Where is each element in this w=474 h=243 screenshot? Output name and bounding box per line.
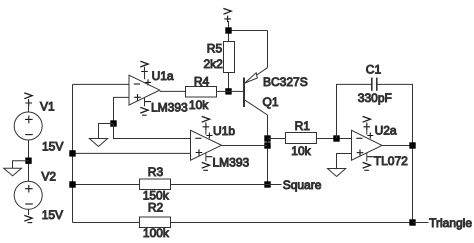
wire Triangle stub bbox=[413, 222, 429, 224]
transistor Q1 BC327S bbox=[244, 68, 308, 115]
wire R3 row right to Square node bbox=[171, 184, 268, 186]
node collector/R1 junction bbox=[264, 135, 270, 141]
wire node to ground bbox=[99, 124, 114, 139]
ground U1a node bbox=[89, 139, 107, 147]
svg-text:U1a: U1a bbox=[152, 69, 174, 83]
svg-text:15V: 15V bbox=[42, 139, 63, 153]
node U2a output/right rail junction bbox=[409, 142, 415, 148]
ground V supply bbox=[4, 168, 22, 176]
resistor R5 bbox=[204, 41, 235, 72]
wire R3 row left bbox=[73, 184, 140, 186]
svg-text:Square: Square bbox=[283, 178, 322, 192]
resistor R1 bbox=[286, 119, 317, 158]
node rail/U1b+ junction bbox=[69, 150, 75, 156]
node collector/U1b output junction bbox=[264, 142, 270, 148]
voltage source V1 bbox=[14, 93, 63, 153]
wire R2 row right to Triangle rail bbox=[171, 222, 413, 224]
op-amp U1b bbox=[191, 116, 250, 170]
wire node down to U1b inverting input bbox=[114, 124, 191, 139]
capacitor C1 bbox=[358, 63, 392, 106]
node rail/R3 junction bbox=[69, 181, 75, 187]
wire R5 bottom to base node bbox=[228, 73, 230, 92]
node R1/C1/U2a- junction bbox=[333, 135, 339, 141]
wire U2a non-inverting input to ground bbox=[337, 154, 352, 169]
svg-text:BC327S: BC327S bbox=[263, 75, 308, 89]
svg-text:100k: 100k bbox=[143, 226, 170, 240]
wire Square stub bbox=[268, 184, 282, 186]
voltage source V2 bbox=[14, 169, 63, 222]
node top +V junction bbox=[225, 27, 231, 33]
svg-text:C1: C1 bbox=[366, 63, 382, 77]
power symbol +V top rail bbox=[223, 8, 231, 30]
wire R1 row bbox=[268, 138, 286, 140]
svg-text:R3: R3 bbox=[148, 165, 164, 179]
wire collector down bbox=[267, 115, 269, 185]
op-amp U2a bbox=[352, 116, 409, 170]
svg-text:330pF: 330pF bbox=[358, 91, 392, 105]
svg-text:2k2: 2k2 bbox=[204, 57, 224, 71]
wire U1b plus input from rail bbox=[73, 152, 191, 154]
wire U2a output to right rail bbox=[382, 145, 413, 147]
svg-text:V1: V1 bbox=[40, 99, 55, 113]
wire U1a inverting input bbox=[73, 83, 130, 85]
svg-text:Triangle: Triangle bbox=[429, 216, 472, 230]
svg-text:TL072: TL072 bbox=[374, 154, 408, 168]
wire top rail node to R5 and emitter bbox=[229, 31, 268, 68]
resistor R3 bbox=[140, 165, 171, 203]
svg-text:Q1: Q1 bbox=[263, 95, 279, 109]
wire U1b output to collector line bbox=[222, 145, 268, 147]
wire node to ground bbox=[13, 161, 29, 169]
svg-text:V2: V2 bbox=[41, 169, 56, 183]
op-amp U1a bbox=[129, 61, 188, 115]
wire R1 to U2a inverting input bbox=[317, 138, 352, 140]
node V1/V2/ground junction bbox=[25, 158, 31, 164]
wire U1a output to R4 bbox=[160, 90, 186, 92]
wire U1a non-inverting input from node bbox=[114, 97, 130, 123]
svg-text:R5: R5 bbox=[207, 41, 223, 55]
svg-text:R2: R2 bbox=[148, 201, 164, 215]
svg-text:LM393: LM393 bbox=[151, 100, 188, 114]
resistor R4 bbox=[186, 74, 217, 112]
wire C1 left branch bbox=[337, 84, 372, 138]
svg-text:10k: 10k bbox=[291, 144, 311, 158]
svg-text:U2a: U2a bbox=[375, 124, 397, 138]
resistor R2 bbox=[140, 201, 171, 240]
svg-text:15V: 15V bbox=[42, 208, 63, 222]
wire V1 to V2 bbox=[28, 140, 30, 181]
wire C1 right branch bbox=[377, 84, 413, 222]
ground U2a bbox=[328, 169, 346, 177]
node right rail/R2/Triangle junction bbox=[409, 219, 415, 225]
node collector/R3/Square junction bbox=[264, 181, 270, 187]
svg-text:U1b: U1b bbox=[213, 124, 235, 138]
svg-text:R4: R4 bbox=[194, 74, 210, 88]
node R5/R4/base junction bbox=[225, 88, 231, 94]
wire left rail bbox=[72, 84, 74, 222]
svg-text:LM393: LM393 bbox=[213, 155, 250, 169]
svg-text:R1: R1 bbox=[295, 119, 311, 133]
wire R2 row left bbox=[73, 222, 140, 224]
wire base node to Q1 base bbox=[229, 90, 245, 92]
wire R4 to base node bbox=[217, 90, 229, 92]
svg-text:10k: 10k bbox=[189, 98, 209, 112]
node U1a+/ground/U1b- junction bbox=[110, 120, 116, 126]
